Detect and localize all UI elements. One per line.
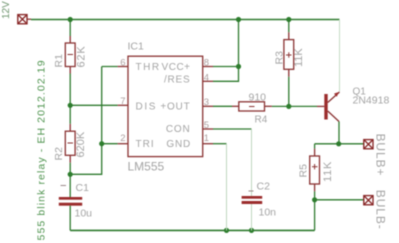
- wire pin 1 GND down (pale): [213, 143, 227, 145]
- svg-text:R1: R1: [53, 54, 65, 68]
- wire pin 4 to VCC node: [213, 67, 239, 82]
- svg-text:LM555: LM555: [128, 160, 165, 174]
- junction TR node: [99, 141, 104, 146]
- junction VCC node: [236, 64, 241, 69]
- connector BULB+: [364, 140, 373, 149]
- pin 8 VCC stub: [203, 66, 213, 68]
- svg-text:+OUT: +OUT: [160, 102, 190, 113]
- junction DIS node: [68, 103, 73, 108]
- wire R4 to base node: [272, 105, 317, 107]
- svg-text:1: 1: [204, 133, 209, 144]
- svg-text:C2: C2: [257, 181, 271, 193]
- svg-text:6: 6: [120, 57, 125, 68]
- wire DIS node to R2: [69, 105, 71, 124]
- resistor R3: [284, 32, 294, 76]
- pin 4 RES stub: [203, 80, 213, 82]
- wire BULB+ row to R5: [314, 144, 316, 149]
- connector BULB-: [364, 196, 373, 205]
- wire pin 3 to R4: [213, 105, 232, 107]
- resistor R4: [232, 102, 272, 111]
- pin 5 CON stub: [203, 128, 213, 130]
- svg-text:3: 3: [204, 97, 209, 108]
- wire DIS node to pin 7: [70, 104, 117, 106]
- capacitor C2: [242, 191, 263, 230]
- wire rail to R3: [288, 20, 290, 33]
- svg-text:/RES: /RES: [164, 75, 191, 86]
- wire TR node to C1 node: [70, 144, 102, 175]
- svg-text:IC1: IC1: [128, 40, 145, 52]
- svg-text:7: 7: [120, 96, 125, 107]
- svg-text:555 blink relay - EH 2012.02.1: 555 blink relay - EH 2012.02.19: [36, 59, 48, 240]
- svg-text:11K: 11K: [293, 48, 305, 67]
- svg-text:8: 8: [204, 57, 209, 68]
- wire BULB- row: [315, 199, 364, 201]
- svg-text:R2: R2: [53, 147, 65, 161]
- svg-text:11K: 11K: [322, 161, 334, 182]
- wire R5 to BULB- node: [314, 191, 316, 199]
- svg-text:THR: THR: [136, 62, 161, 73]
- wire R2 to C1 node: [69, 163, 71, 175]
- junction base node: [286, 104, 291, 109]
- wire pin 8 to VCC node: [213, 66, 239, 68]
- svg-text:C1: C1: [76, 182, 90, 194]
- wire VCC node to rail: [238, 20, 240, 67]
- resistor R2: [65, 124, 75, 163]
- wire pin 5 CON to C2: [213, 128, 252, 130]
- pin 6 THR stub: [118, 66, 128, 68]
- svg-text:BULB+: BULB+: [374, 134, 388, 177]
- junction top rail R3: [286, 17, 291, 22]
- wire Q1 collector to BULB+ node: [338, 122, 340, 144]
- wire BULB+ row: [315, 143, 364, 145]
- svg-text:TRI: TRI: [136, 139, 155, 150]
- pin 7 DIS stub: [118, 104, 128, 106]
- svg-text:910: 910: [249, 91, 267, 103]
- wire R3 to base node: [288, 77, 290, 107]
- junction C1 node: [68, 172, 73, 177]
- svg-text:CON: CON: [166, 124, 191, 135]
- wire rail to R1: [69, 20, 71, 37]
- junction BULB+ node: [336, 141, 341, 146]
- IC U1 box: [128, 56, 203, 156]
- junction BULB- node: [312, 197, 317, 202]
- wire bottom rail: [70, 229, 314, 231]
- wire top rail: [31, 19, 340, 21]
- junction top rail R1: [68, 17, 73, 22]
- svg-text:62K: 62K: [75, 46, 87, 68]
- svg-text:VCC+: VCC+: [162, 62, 191, 73]
- svg-text:12V: 12V: [1, 1, 12, 19]
- svg-text:10u: 10u: [75, 208, 93, 220]
- svg-text:R3: R3: [274, 51, 286, 65]
- capacitor C1: [59, 174, 82, 230]
- wire R1 to DIS node: [69, 74, 71, 106]
- wire BULB- node to bottom rail: [314, 200, 316, 231]
- svg-text:R4: R4: [255, 115, 268, 126]
- svg-text:BULB-: BULB-: [374, 190, 388, 230]
- svg-text:10n: 10n: [259, 207, 277, 219]
- svg-text:R5: R5: [298, 164, 310, 178]
- supply symbol 12V: [18, 15, 31, 24]
- resistor R5: [310, 149, 320, 192]
- resistor R1: [65, 36, 75, 74]
- svg-text:2N4918: 2N4918: [353, 95, 390, 107]
- pin 3 OUT stub: [203, 105, 213, 107]
- junction bottom rail C2: [249, 228, 254, 233]
- svg-text:GND: GND: [166, 139, 191, 150]
- svg-text:620K: 620K: [75, 131, 87, 157]
- junction top rail VCC: [236, 17, 241, 22]
- junction bottom rail GND: [224, 228, 229, 233]
- transistor Q1: [317, 92, 340, 122]
- pin 2 TR stub: [118, 143, 128, 145]
- svg-text:DIS: DIS: [136, 102, 157, 113]
- wire THR column: [102, 67, 118, 144]
- svg-text:5: 5: [204, 120, 209, 131]
- svg-text:4: 4: [204, 72, 209, 83]
- svg-text:2: 2: [120, 133, 125, 144]
- pin 1 GND stub: [203, 143, 213, 145]
- wire rail to Q1 emitter (pale): [339, 20, 341, 92]
